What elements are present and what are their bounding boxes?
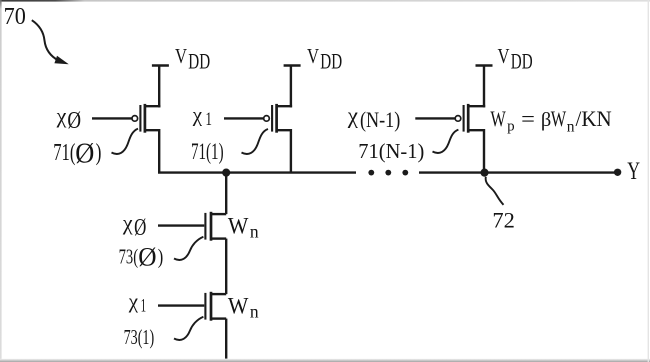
wire: drain lead 73(0) xyxy=(211,213,226,215)
svg-text:W: W xyxy=(228,214,249,240)
wire: gate lead chi1 to 73(1) xyxy=(158,304,204,306)
junction node 72 xyxy=(480,169,488,177)
wire: between 73(0) and 73(1) xyxy=(225,239,227,295)
svg-text:Ø: Ø xyxy=(138,241,156,271)
leader line for node 72 xyxy=(486,177,504,205)
label Wp formula of 71(N-1) xyxy=(490,106,611,136)
svg-text:/KN: /KN xyxy=(576,106,612,131)
svg-text:1: 1 xyxy=(205,109,212,130)
label chi(N-1) gate of 71(N-1) xyxy=(347,103,401,132)
svg-text:1: 1 xyxy=(141,296,147,317)
svg-text:71(N-1): 71(N-1) xyxy=(358,141,424,163)
reference numeral 71(0) xyxy=(53,139,101,170)
label VDD of 71(0) xyxy=(175,44,210,74)
svg-text:73(: 73( xyxy=(119,245,139,269)
ellipsis dot 1 xyxy=(368,170,374,176)
wire: drain of 71(0) down to output rail xyxy=(145,130,159,172)
svg-text:p: p xyxy=(507,119,514,135)
label chi1 gate of 71(1) xyxy=(192,103,212,131)
transistor U 71(N-1) PMOS body xyxy=(455,104,468,133)
svg-text:73(1): 73(1) xyxy=(124,325,155,349)
svg-text:n: n xyxy=(567,118,575,135)
wire: drain of 71(1) down to output rail xyxy=(277,130,291,172)
wire: source lead 71(0) xyxy=(145,105,159,106)
svg-text:(N-1): (N-1) xyxy=(360,107,400,132)
wire: VDD stub of transistor 71(1) xyxy=(290,66,292,108)
wire: source lead 71(1) xyxy=(277,105,291,106)
wire: drain lead 73(1) xyxy=(211,293,226,295)
svg-text:DD: DD xyxy=(511,49,533,74)
terminal node Y xyxy=(614,169,621,176)
svg-text:χ: χ xyxy=(347,103,359,128)
svg-text:71(: 71( xyxy=(53,140,75,166)
leader line for 73(0) xyxy=(174,237,203,260)
label chi0 gate of 71(0) xyxy=(56,103,82,134)
svg-text:V: V xyxy=(498,44,510,68)
ellipsis dot 2 xyxy=(385,170,391,176)
transistor U 73(1) NMOS body xyxy=(205,292,211,321)
transistor U 73(0) NMOS body xyxy=(205,212,211,241)
svg-text:Ø: Ø xyxy=(67,107,81,134)
svg-text:W: W xyxy=(551,106,567,131)
svg-text:Ø: Ø xyxy=(134,215,146,241)
reference numeral 73(0) xyxy=(119,241,164,271)
svg-text:V: V xyxy=(175,44,187,68)
svg-text:χ: χ xyxy=(192,103,203,127)
wire: gate lead chi0 to 73(0) xyxy=(158,224,204,226)
wire: output rail left segment xyxy=(158,171,356,173)
svg-text:=: = xyxy=(521,106,535,131)
svg-text:DD: DD xyxy=(320,49,342,74)
wire: output rail right segment to Y xyxy=(419,171,618,173)
svg-text:χ: χ xyxy=(128,289,139,313)
svg-text:71(1): 71(1) xyxy=(191,139,224,164)
label Wn of 73(1) xyxy=(228,294,259,322)
power VDD tick 2 xyxy=(284,64,301,67)
svg-text:Y: Y xyxy=(627,158,640,185)
wire: drain of 71(N-1) down to output rail xyxy=(469,130,484,172)
svg-text:V: V xyxy=(307,44,319,68)
wire: VDD stub of transistor 71(0) xyxy=(158,66,160,108)
wire: source lead 73(1) xyxy=(211,317,226,319)
power VDD tick 3 xyxy=(476,64,493,67)
wire: VDD stub of transistor 71(N-1) xyxy=(483,66,485,108)
svg-text:): ) xyxy=(96,140,102,166)
label Wn of 73(0) xyxy=(228,214,259,242)
wire: below 73(1) to bottom edge xyxy=(225,319,227,359)
svg-text:DD: DD xyxy=(188,49,210,74)
wire: gate lead chi1 to 71(1) xyxy=(224,117,264,119)
svg-text:W: W xyxy=(490,106,506,131)
svg-text:n: n xyxy=(250,301,259,321)
svg-text:W: W xyxy=(228,294,249,320)
ellipsis dot 3 xyxy=(402,170,408,176)
leader line for 71(0) xyxy=(112,129,139,154)
wire: source lead 73(0) xyxy=(211,237,226,239)
wire: gate lead chi0 to 71(0) xyxy=(92,117,132,119)
label VDD of 71(N-1) xyxy=(498,44,533,74)
label chi0 gate of 73(0) xyxy=(122,210,146,241)
junction node at 72 column xyxy=(222,169,230,177)
svg-text:Ø: Ø xyxy=(75,139,94,170)
wire: source lead 71(N-1) xyxy=(469,105,484,106)
svg-text:70: 70 xyxy=(4,4,26,30)
power VDD tick 1 xyxy=(152,64,169,67)
leader line for 73(1) xyxy=(174,317,203,340)
leader line for 71(1) xyxy=(242,129,269,154)
wire: gate lead chi(N-1) to 71(N-1) xyxy=(415,117,455,119)
transistor U 71(1) PMOS body xyxy=(264,104,277,133)
wire: node 72 column down to NMOS chain xyxy=(225,173,227,215)
label VDD of 71(1) xyxy=(307,44,342,74)
leader arrow for figure numeral 70 xyxy=(32,20,69,64)
leader line for 71(N-1) xyxy=(433,130,459,153)
svg-text:72: 72 xyxy=(492,207,515,232)
label chi1 gate of 73(1) xyxy=(128,289,146,317)
svg-text:n: n xyxy=(250,221,259,241)
svg-text:χ: χ xyxy=(122,210,133,235)
transistor U 71(0) PMOS body xyxy=(132,104,145,133)
svg-text:): ) xyxy=(158,245,164,269)
svg-text:χ: χ xyxy=(56,103,67,128)
